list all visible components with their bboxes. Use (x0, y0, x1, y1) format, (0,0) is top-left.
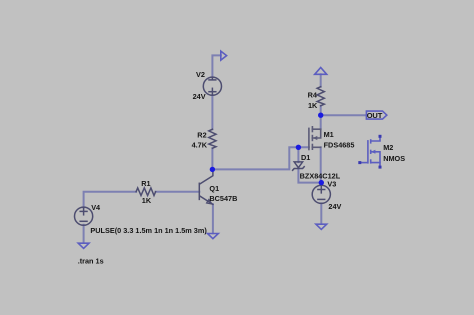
svg-text:24V: 24V (193, 92, 206, 101)
svg-text:PULSE(0 3.3 1.5m 1n 1n 1.5m 3m: PULSE(0 3.3 1.5m 1n 1n 1.5m 3m) (90, 226, 207, 235)
svg-text:BC547B: BC547B (209, 194, 237, 203)
svg-text:24V: 24V (328, 202, 341, 211)
svg-text:NMOS: NMOS (383, 154, 405, 163)
svg-text:1K: 1K (142, 196, 152, 205)
svg-text:OUT: OUT (367, 111, 383, 120)
svg-text:R1: R1 (141, 179, 150, 188)
svg-text:Q1: Q1 (209, 184, 219, 193)
svg-text:V3: V3 (327, 179, 336, 188)
svg-text:FDS4685: FDS4685 (324, 141, 355, 150)
svg-text:R2: R2 (197, 130, 206, 139)
svg-text:M1: M1 (324, 130, 334, 139)
svg-text:D1: D1 (301, 153, 310, 162)
svg-text:4.7K: 4.7K (192, 141, 208, 150)
svg-text:V2: V2 (196, 70, 205, 79)
svg-text:R4: R4 (308, 90, 318, 99)
svg-text:.tran 1s: .tran 1s (78, 257, 104, 266)
svg-text:M2: M2 (383, 143, 393, 152)
svg-text:V4: V4 (91, 203, 101, 212)
svg-text:1K: 1K (308, 101, 318, 110)
